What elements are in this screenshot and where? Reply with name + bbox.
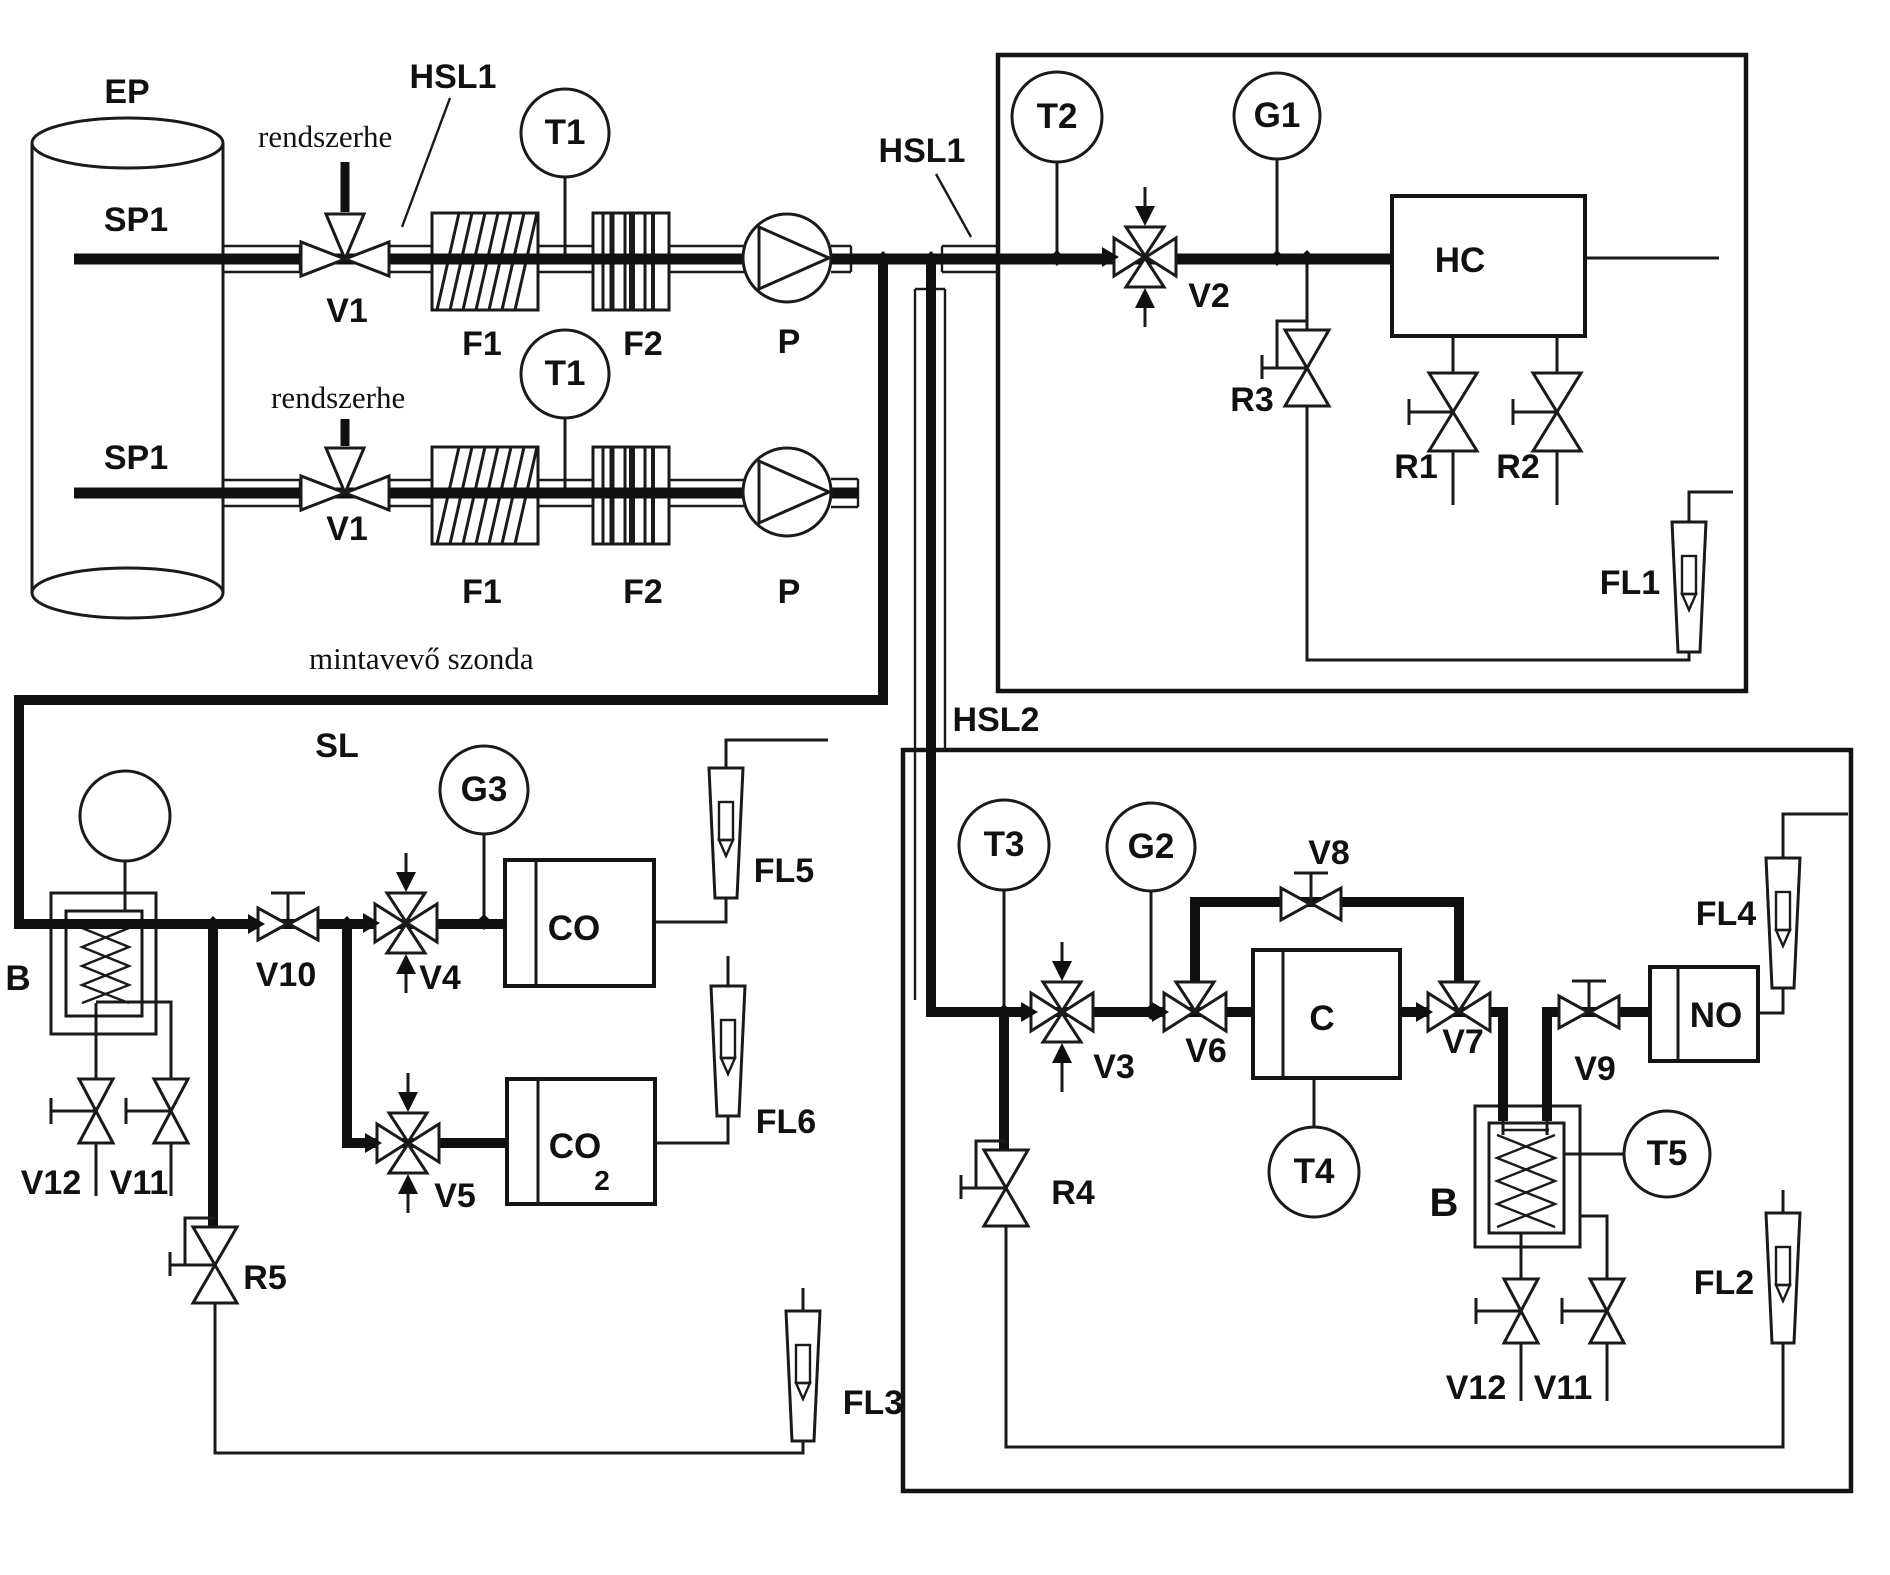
svg-text:P: P bbox=[778, 573, 801, 611]
svg-text:CO: CO bbox=[549, 1127, 602, 1166]
svg-text:R4: R4 bbox=[1051, 1174, 1095, 1212]
svg-text:V7: V7 bbox=[1442, 1023, 1484, 1061]
svg-text:V12: V12 bbox=[1446, 1369, 1507, 1407]
svg-text:V12: V12 bbox=[21, 1164, 82, 1202]
svg-text:V3: V3 bbox=[1093, 1048, 1135, 1086]
svg-text:T1: T1 bbox=[545, 113, 586, 152]
svg-text:V4: V4 bbox=[419, 959, 461, 997]
svg-text:G3: G3 bbox=[461, 770, 508, 809]
svg-text:F1: F1 bbox=[462, 325, 502, 363]
svg-text:B: B bbox=[5, 959, 30, 998]
svg-text:V11: V11 bbox=[1534, 1369, 1593, 1407]
svg-text:SL: SL bbox=[315, 727, 358, 765]
svg-text:CO: CO bbox=[548, 909, 601, 948]
svg-text:V2: V2 bbox=[1188, 277, 1230, 315]
svg-text:V1: V1 bbox=[326, 292, 368, 330]
svg-text:HSL2: HSL2 bbox=[953, 701, 1040, 739]
svg-text:2: 2 bbox=[594, 1165, 610, 1196]
svg-text:FL4: FL4 bbox=[1696, 895, 1757, 933]
svg-text:FL6: FL6 bbox=[756, 1103, 816, 1141]
svg-text:V8: V8 bbox=[1308, 834, 1350, 872]
svg-text:T4: T4 bbox=[1294, 1152, 1335, 1191]
svg-text:SP1: SP1 bbox=[104, 439, 168, 477]
svg-text:V10: V10 bbox=[256, 956, 317, 994]
svg-text:mintavevő szonda: mintavevő szonda bbox=[309, 641, 534, 676]
svg-text:T1: T1 bbox=[545, 354, 586, 393]
svg-text:HC: HC bbox=[1435, 241, 1486, 280]
svg-text:EP: EP bbox=[104, 73, 149, 111]
svg-text:rendszerhe: rendszerhe bbox=[271, 380, 405, 415]
svg-text:V5: V5 bbox=[434, 1177, 476, 1215]
svg-text:V1: V1 bbox=[326, 510, 368, 548]
svg-text:F1: F1 bbox=[462, 573, 502, 611]
svg-text:V9: V9 bbox=[1574, 1050, 1616, 1088]
svg-text:FL3: FL3 bbox=[843, 1384, 903, 1422]
svg-text:NO: NO bbox=[1690, 996, 1743, 1035]
svg-text:B: B bbox=[1430, 1181, 1459, 1225]
svg-text:V6: V6 bbox=[1185, 1032, 1227, 1070]
svg-text:F2: F2 bbox=[623, 573, 663, 611]
svg-text:G2: G2 bbox=[1128, 827, 1175, 866]
svg-text:T3: T3 bbox=[984, 825, 1025, 864]
svg-text:rendszerhe: rendszerhe bbox=[258, 119, 392, 154]
svg-text:SP1: SP1 bbox=[104, 201, 168, 239]
svg-text:R5: R5 bbox=[243, 1259, 286, 1297]
svg-text:FL5: FL5 bbox=[754, 852, 814, 890]
svg-text:R1: R1 bbox=[1394, 448, 1437, 486]
svg-text:T2: T2 bbox=[1037, 97, 1078, 136]
svg-text:R3: R3 bbox=[1230, 381, 1273, 419]
svg-text:HSL1: HSL1 bbox=[410, 58, 497, 96]
svg-text:C: C bbox=[1309, 999, 1334, 1038]
svg-text:V11: V11 bbox=[110, 1164, 169, 1202]
svg-text:FL2: FL2 bbox=[1694, 1264, 1754, 1302]
svg-text:R2: R2 bbox=[1496, 448, 1539, 486]
svg-text:F2: F2 bbox=[623, 325, 663, 363]
svg-text:T5: T5 bbox=[1647, 1134, 1688, 1173]
svg-text:G1: G1 bbox=[1254, 96, 1301, 135]
svg-text:FL1: FL1 bbox=[1600, 564, 1660, 602]
svg-text:P: P bbox=[778, 323, 801, 361]
svg-text:HSL1: HSL1 bbox=[879, 132, 966, 170]
